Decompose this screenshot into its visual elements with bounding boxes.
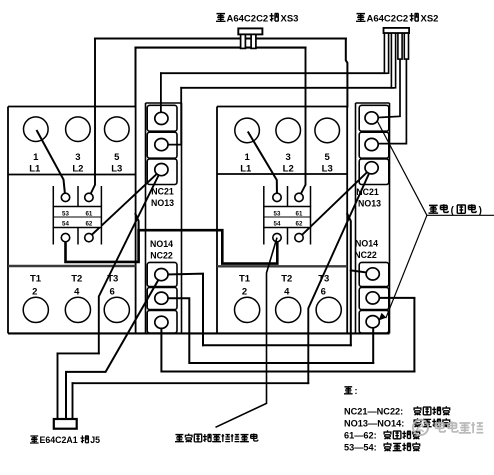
svg-text:NO14: NO14 [150, 239, 173, 249]
svg-text:XS2: XS2 [421, 14, 439, 25]
svg-text:53—54:: 53—54: [344, 443, 377, 453]
svg-text:T1: T1 [239, 273, 251, 284]
svg-text:NC21: NC21 [151, 187, 174, 197]
svg-text:1: 1 [244, 152, 250, 163]
svg-text:T1: T1 [30, 273, 42, 284]
svg-text:T2: T2 [281, 273, 292, 284]
svg-text:62: 62 [85, 221, 92, 228]
svg-text:L2: L2 [72, 163, 83, 174]
svg-text::: : [355, 386, 358, 396]
svg-text:2: 2 [32, 287, 37, 298]
svg-text:4: 4 [74, 287, 80, 298]
svg-text:3: 3 [75, 152, 80, 163]
svg-text:NC21: NC21 [356, 187, 379, 197]
svg-text:NO14: NO14 [355, 239, 378, 249]
svg-text:NC22: NC22 [354, 250, 377, 260]
svg-text:L1: L1 [29, 163, 41, 174]
svg-text:L3: L3 [322, 163, 333, 174]
svg-text:54: 54 [274, 221, 281, 228]
svg-text:62: 62 [296, 221, 303, 228]
svg-text:53: 53 [62, 210, 69, 217]
svg-text:): ) [479, 206, 482, 217]
svg-text:6: 6 [110, 287, 115, 298]
svg-text:NO13: NO13 [358, 198, 381, 208]
svg-text:J5: J5 [90, 435, 100, 445]
svg-text:E64C2A1: E64C2A1 [40, 435, 78, 445]
svg-text:T2: T2 [71, 273, 82, 284]
svg-text:5: 5 [114, 152, 120, 163]
svg-text:2: 2 [242, 287, 247, 298]
svg-text:A64C2C2: A64C2C2 [367, 14, 409, 25]
svg-text:53: 53 [274, 210, 281, 217]
svg-text:4: 4 [284, 287, 290, 298]
svg-text:T3: T3 [318, 273, 329, 284]
svg-text:54: 54 [62, 221, 69, 228]
svg-text:T3: T3 [107, 273, 118, 284]
svg-text:5: 5 [325, 152, 331, 163]
svg-text:NO13: NO13 [151, 198, 174, 208]
svg-text:6: 6 [321, 287, 326, 298]
svg-text:L3: L3 [111, 163, 122, 174]
svg-text:NC22: NC22 [150, 250, 173, 260]
svg-text:L1: L1 [240, 163, 252, 174]
svg-text:NC21—NC22:: NC21—NC22: [344, 407, 403, 417]
svg-text:NO13—NO14:: NO13—NO14: [344, 419, 404, 429]
svg-text:L2: L2 [283, 163, 294, 174]
svg-text:61: 61 [296, 210, 303, 217]
svg-text:61: 61 [85, 210, 92, 217]
svg-text:61—62:: 61—62: [344, 431, 377, 441]
svg-text:A64C2C2: A64C2C2 [227, 14, 269, 25]
svg-text:XS3: XS3 [281, 14, 299, 25]
svg-text:3: 3 [286, 152, 291, 163]
svg-text:1: 1 [33, 152, 39, 163]
